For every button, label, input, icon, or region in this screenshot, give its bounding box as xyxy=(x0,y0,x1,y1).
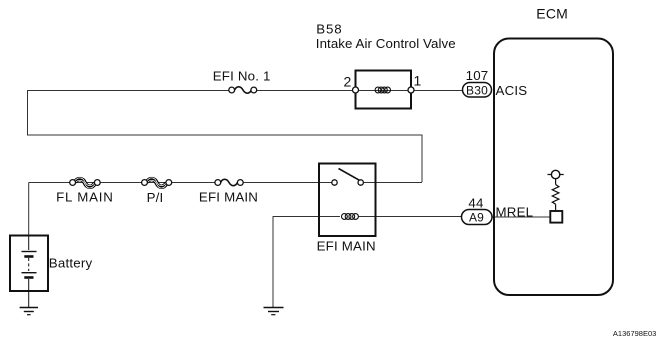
svg-text:A9: A9 xyxy=(469,211,484,225)
svg-text:ACIS: ACIS xyxy=(496,83,528,98)
svg-text:44: 44 xyxy=(468,196,483,211)
svg-text:EFI MAIN: EFI MAIN xyxy=(317,238,376,253)
svg-text:P/I: P/I xyxy=(147,190,164,205)
svg-text:B30: B30 xyxy=(466,84,488,98)
svg-text:107: 107 xyxy=(466,68,489,83)
svg-text:EFI MAIN: EFI MAIN xyxy=(199,190,258,205)
svg-text:ECM: ECM xyxy=(536,6,568,22)
svg-text:Intake Air Control Valve: Intake Air Control Valve xyxy=(316,36,456,51)
svg-text:Battery: Battery xyxy=(49,256,93,271)
svg-text:FL MAIN: FL MAIN xyxy=(56,190,114,205)
svg-text:EFI No. 1: EFI No. 1 xyxy=(213,69,271,84)
svg-text:MREL: MREL xyxy=(496,205,534,220)
svg-text:1: 1 xyxy=(414,73,422,89)
svg-text:2: 2 xyxy=(344,74,352,90)
svg-text:B58: B58 xyxy=(316,22,342,37)
svg-text:A136798E03: A136798E03 xyxy=(613,329,656,338)
